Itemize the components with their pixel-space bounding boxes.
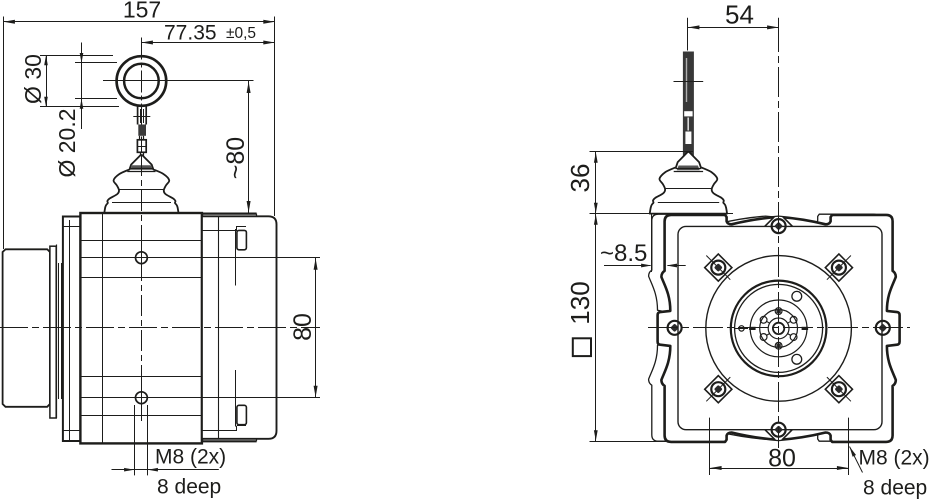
rear bottom tab: [236, 370, 247, 427]
dimension 77.35 arrow right: [263, 41, 275, 45]
svg-text:80: 80: [289, 313, 317, 341]
dimension ~80 arrow top: [247, 82, 251, 94]
corner screw diamond 3: [705, 376, 732, 403]
hub small circle upper: [792, 291, 802, 301]
body vertical centreline: [141, 155, 143, 425]
svg-text:36: 36: [565, 164, 595, 193]
rear housing top bulge band: [203, 214, 257, 217]
hub tiny circle left: [735, 326, 748, 331]
wire segment: [140, 136, 144, 140]
hub hole 3: [760, 316, 767, 323]
hub bolt circle: [760, 310, 798, 348]
corner screw diamond 1: [705, 254, 732, 281]
front plate inner lines: [63, 220, 81, 440]
rear housing inner line: [218, 216, 220, 438]
M8 hole top: [136, 246, 148, 271]
dimension 54 arrow right: [767, 25, 779, 29]
right M8 leader: [850, 447, 863, 473]
eyelet inner ring: [124, 64, 159, 99]
hub radial tick 1: [788, 321, 792, 323]
flange contour: [658, 215, 900, 442]
right view horizontal centreline: [648, 327, 910, 329]
left screw: [668, 321, 682, 335]
dimension dia30 arrow top: [44, 55, 48, 65]
eyelet outer ring: [117, 56, 167, 106]
svg-text:130: 130: [565, 281, 595, 324]
svg-text:80: 80: [768, 445, 796, 473]
body inner vertical: [102, 213, 104, 443]
dimension dia30 extension bottom: [40, 106, 119, 108]
corner screw 3: [711, 382, 725, 396]
right dimension 80 arrow right: [837, 466, 849, 470]
corner screw 2: [832, 261, 846, 275]
right 8 deep label: [863, 477, 927, 500]
hub square bottom: [776, 344, 780, 348]
hub tick left: [749, 327, 756, 330]
bottom screw: [772, 423, 786, 437]
crimp sleeve: [138, 125, 146, 136]
body section line c: [80, 376, 201, 378]
dimension ~80 label: [222, 137, 250, 179]
dimension 157 arrow left: [3, 20, 15, 24]
right view vertical centreline: [778, 22, 780, 448]
dimension 36 extension top: [590, 151, 694, 153]
hub radial tick 4: [788, 334, 792, 336]
dimension ~8.5 leader left: [604, 265, 651, 267]
dimension 80 label: [289, 313, 317, 341]
right dimension 80 extension left: [709, 418, 711, 475]
dimension 54 extension left: [687, 18, 689, 51]
top screw: [772, 219, 786, 233]
dimension 130 arrow top: [594, 214, 598, 225]
svg-text:8 deep: 8 deep: [157, 476, 221, 499]
rear top tab: [236, 229, 247, 286]
8 deep label: [157, 476, 221, 499]
hub square top: [776, 309, 780, 313]
right grommet dark band: [677, 166, 700, 171]
hub hole 6: [790, 334, 797, 341]
dimension 54 extension right: [778, 18, 780, 22]
dimension ~8.5 arrow right: [667, 264, 678, 268]
hub shaft circle: [773, 323, 784, 334]
dimension 157 arrow right: [263, 20, 275, 24]
corner screw diagonal centreline 1: [706, 256, 730, 280]
dimension 36 arrow bottom: [594, 203, 598, 214]
rear housing: [202, 216, 277, 438]
dimension ~8.5 label: [600, 240, 647, 267]
right dimension 80 label: [768, 445, 796, 473]
wire tip: [141, 152, 144, 157]
dimension ~8.5 extension: [651, 214, 653, 272]
bottom screw diamond: [765, 416, 792, 443]
hub hole 4: [760, 334, 767, 341]
body centreline horizontal: [0, 327, 320, 329]
grommet bellows: [104, 155, 178, 213]
dimension tolerance label: [226, 25, 256, 42]
dimension 54 label: [725, 0, 754, 30]
right M8 label: [859, 447, 930, 470]
dimension 36+130 extension mid: [590, 213, 734, 215]
wire shank: [133, 106, 150, 125]
cable: [683, 52, 694, 157]
right dimension 80 line: [710, 468, 849, 470]
body section line b: [80, 277, 201, 279]
dimension 80 line: [315, 258, 317, 398]
svg-text:M8 (2x): M8 (2x): [155, 446, 226, 469]
front plate square: [678, 226, 882, 429]
M8 arrow left: [124, 468, 134, 472]
dimension dia20.2 line: [81, 43, 83, 130]
rear housing bottom step lines: [202, 426, 246, 431]
dimension 130 line: [595, 214, 597, 441]
dimension 36 arrow top: [594, 152, 598, 163]
body section line a: [80, 240, 201, 242]
dimension dia30 line: [46, 55, 48, 107]
corner screw diagonal centreline 4: [827, 377, 851, 401]
dimension dia20.2 extension bottom: [75, 98, 117, 100]
dimension 157 label: [123, 0, 161, 23]
drum spacer ring: [50, 246, 56, 418]
svg-text:±0,5: ±0,5: [226, 25, 256, 42]
right screw: [876, 321, 890, 335]
right dimension 80 arrow left: [710, 466, 722, 470]
dimension 54 line: [688, 27, 779, 29]
hub radial tick 2: [766, 321, 770, 323]
dimension 157 extension line right: [274, 17, 276, 217]
svg-text:54: 54: [725, 0, 754, 30]
dimension 77.35 line: [141, 42, 274, 44]
hub inner circle: [768, 318, 789, 339]
dimension 77.35 arrow left: [141, 41, 153, 45]
hub small circle lower: [792, 354, 802, 364]
svg-text:~8.5: ~8.5: [600, 240, 647, 267]
svg-text:M8 (2x): M8 (2x): [859, 447, 930, 470]
hub tick right: [802, 327, 809, 330]
body cable drum: [3, 249, 50, 406]
dimension dia30 label: [20, 54, 46, 104]
rear housing bottom bulge band: [203, 439, 257, 442]
dimension ~80 arrow bottom: [247, 201, 251, 213]
dimension 80 arrow top: [314, 258, 318, 270]
dimension 157 extension line left: [3, 17, 5, 250]
corner screw diamond 2: [825, 254, 852, 281]
front plate: [63, 217, 81, 442]
right dimension 80 extension right: [848, 418, 850, 475]
corner screw diamond 4: [825, 376, 852, 403]
svg-text:Ø 20.2: Ø 20.2: [54, 108, 80, 177]
rear body contour: [649, 214, 883, 441]
main body block: [80, 213, 201, 443]
ferrule: [137, 140, 146, 153]
square symbol: [573, 338, 591, 356]
dimension ~8.5 arrow left: [641, 264, 652, 268]
cable tick: [674, 81, 704, 83]
dimension 36 label: [565, 164, 595, 193]
svg-text:8 deep: 8 deep: [863, 477, 927, 500]
hub radial tick 3: [766, 334, 770, 336]
dimension dia20.2 arrow top: [80, 53, 84, 63]
M8 arrow right: [148, 468, 158, 472]
drum inner ring: [57, 245, 62, 419]
dimension 130 arrow bottom: [594, 430, 598, 441]
top screw diamond: [765, 213, 792, 240]
dimension 80 arrow bottom: [314, 386, 318, 398]
hub circle mid: [750, 300, 807, 357]
right grommet collar lines: [674, 169, 703, 172]
right grommet bellows: [650, 152, 727, 214]
grommet base crease: [112, 202, 171, 204]
M8 leader line: [112, 469, 219, 471]
dimension 130 extension bottom: [590, 441, 667, 443]
dimension dia30 arrow bottom: [44, 97, 48, 107]
svg-text:Ø 30: Ø 30: [20, 54, 46, 104]
dimension 157 line: [3, 21, 274, 23]
grommet collar lines: [127, 169, 155, 172]
dimension dia20.2 arrow bottom: [80, 99, 84, 109]
flange large circle: [706, 256, 852, 402]
dimension ~8.5 leader right: [668, 265, 686, 267]
dimension ~80 line: [248, 81, 250, 213]
dimension 36 line: [595, 152, 597, 214]
dimension 130 label: [565, 281, 595, 324]
M8 hole bottom: [136, 386, 148, 411]
hub hole 2: [775, 308, 782, 315]
M8 extension lines: [135, 405, 148, 475]
M8 label: [155, 446, 226, 469]
svg-text:77.35: 77.35: [164, 22, 217, 45]
corner screw 4: [832, 382, 846, 396]
dimension 80 extension top: [80, 257, 320, 259]
hub ring outer: [731, 281, 827, 377]
dimension dia30 extension top: [40, 55, 113, 57]
corner screw diagonal centreline 2: [827, 256, 851, 280]
dimension dia20.2 label: [54, 108, 80, 177]
eyelet vertical centreline: [141, 38, 143, 153]
grommet dark band: [130, 165, 152, 170]
corner screw 1: [711, 261, 725, 275]
hub hole 5: [775, 342, 782, 349]
dimension 80 extension bottom: [80, 397, 320, 399]
dimension 77.35 label: [164, 22, 217, 45]
hub ring outer inner edge: [735, 284, 823, 372]
dimension 54 arrow left: [688, 25, 700, 29]
rear housing top step lines: [202, 226, 246, 231]
hub hole 1: [790, 316, 797, 323]
svg-text:~80: ~80: [222, 137, 250, 179]
grommet neck crease: [120, 189, 164, 191]
right grommet base crease: [658, 202, 719, 204]
body section line d: [80, 415, 201, 417]
corner screw diagonal centreline 3: [706, 377, 730, 401]
right grommet neck crease: [666, 188, 712, 190]
svg-text:157: 157: [123, 0, 161, 23]
eyelet horizontal centreline: [103, 80, 254, 82]
dimension dia20.2 extension top: [75, 62, 117, 64]
